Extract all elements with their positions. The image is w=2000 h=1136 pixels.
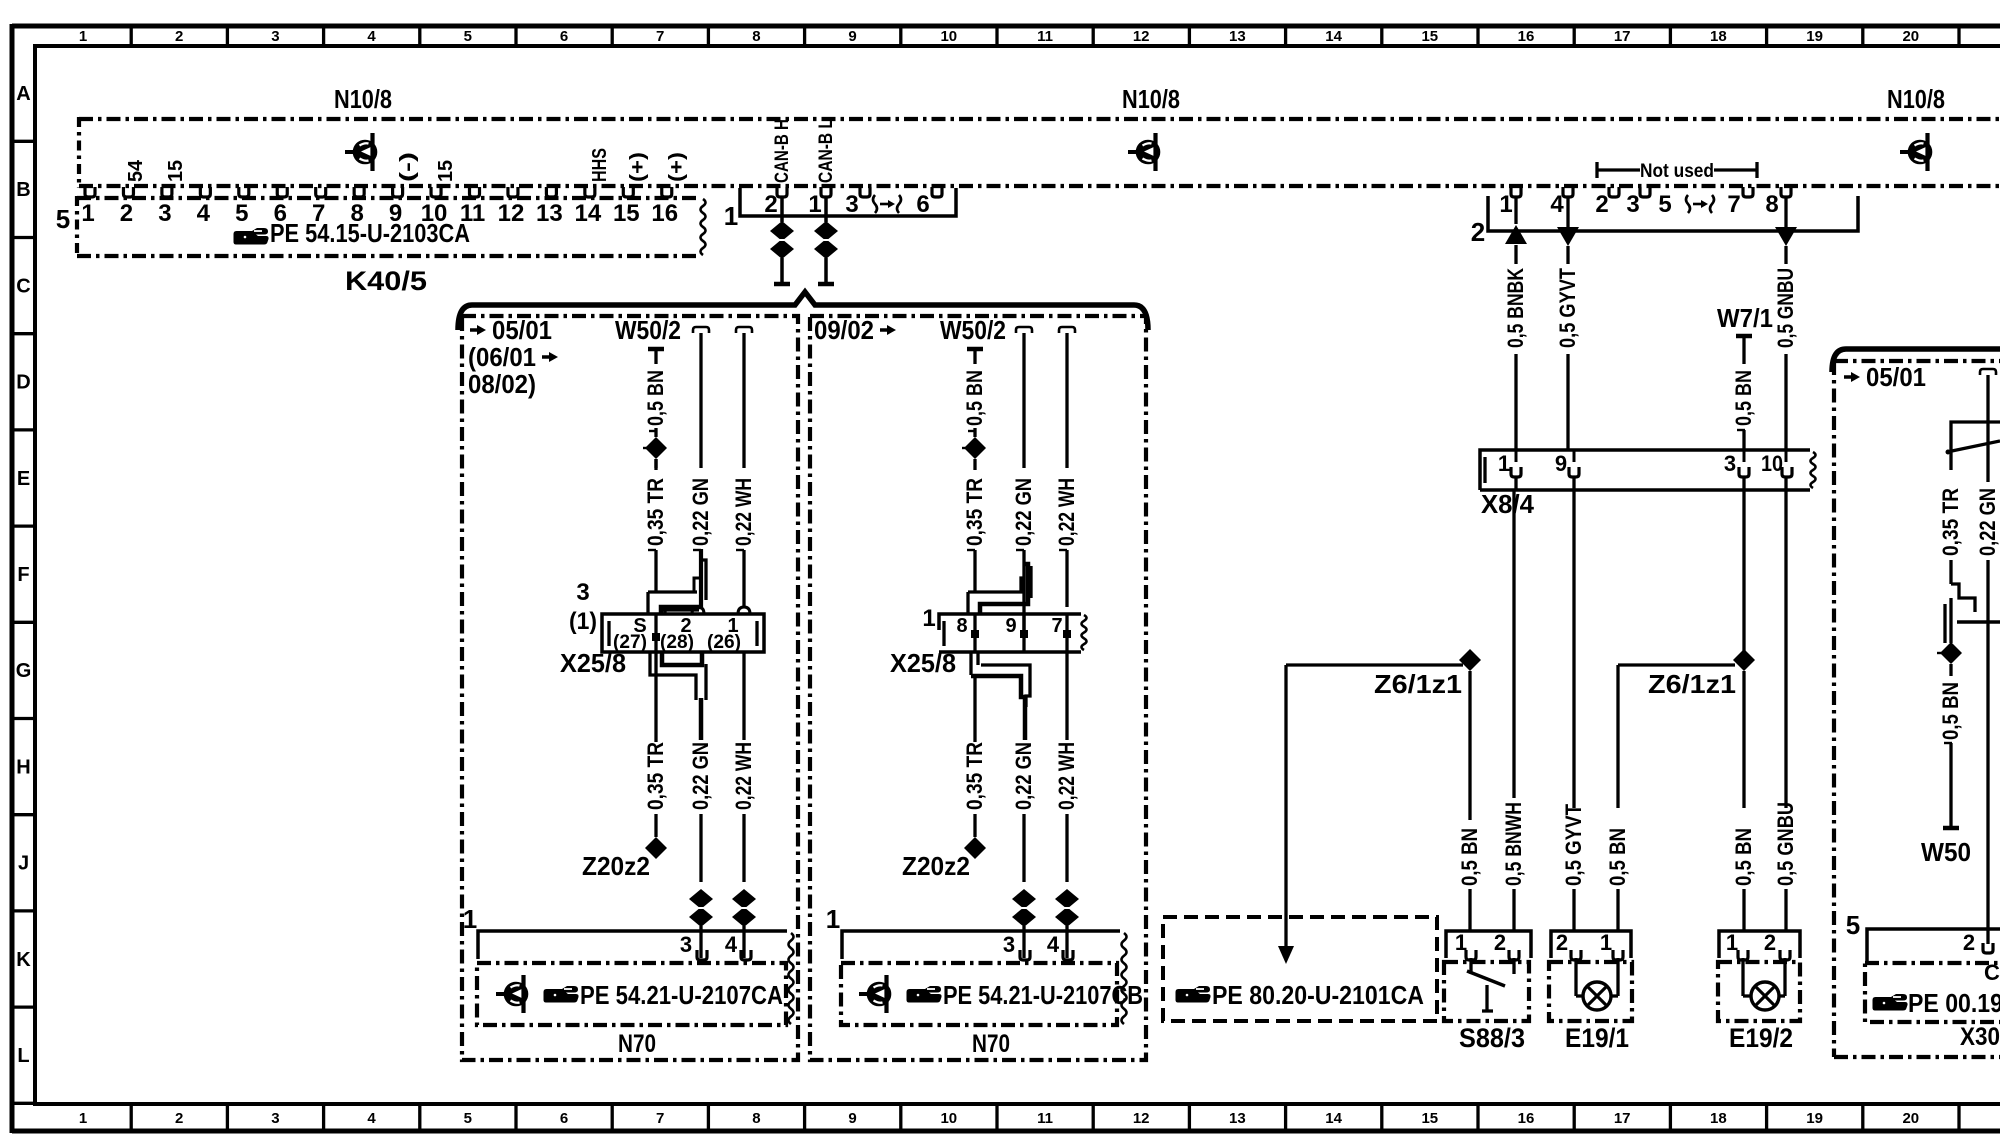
svg-text:17: 17	[1614, 1110, 1631, 1127]
svg-text:0,5 GYVT: 0,5 GYVT	[1555, 268, 1580, 348]
svg-text:PE 54.21-U-2107CB: PE 54.21-U-2107CB	[943, 980, 1143, 1010]
svg-text:PE 54.15-U-2103CA: PE 54.15-U-2103CA	[270, 218, 470, 248]
connector X25/8 left	[602, 614, 764, 652]
svg-text:16: 16	[1518, 1110, 1535, 1127]
svg-text:3: 3	[271, 1110, 279, 1127]
svg-text:3: 3	[576, 579, 589, 606]
ground W50	[1943, 826, 1959, 831]
svg-text:E19/2: E19/2	[1729, 1023, 1793, 1053]
svg-text:0,5 BN: 0,5 BN	[1605, 828, 1630, 886]
svg-text:HHS: HHS	[589, 148, 611, 182]
connector X8/4	[1480, 450, 1810, 490]
svg-text:1: 1	[79, 1110, 87, 1127]
svg-text:2: 2	[120, 200, 133, 227]
svg-text:C: C	[1984, 960, 2000, 985]
svg-text:10: 10	[940, 28, 957, 45]
svg-text:0,5 BN: 0,5 BN	[1938, 682, 1963, 740]
svg-text:2: 2	[175, 28, 183, 45]
switch contacts	[1469, 958, 1472, 974]
svg-text:0,5 BNWH: 0,5 BNWH	[1501, 802, 1526, 886]
svg-text:11: 11	[1037, 28, 1053, 45]
svg-text:2: 2	[175, 1110, 183, 1127]
svg-text:10: 10	[1761, 451, 1783, 476]
svg-text:S88/3: S88/3	[1459, 1023, 1525, 1053]
K40/5 pins 1-16	[85, 187, 95, 197]
svg-text:8: 8	[752, 1110, 760, 1127]
CAN wires with connectors	[780, 196, 784, 222]
lamp E19/2	[1719, 931, 1800, 958]
svg-text:14: 14	[1325, 1110, 1342, 1127]
svg-text:0,35 TR: 0,35 TR	[962, 742, 987, 810]
svg-text:C: C	[16, 275, 30, 297]
internal connection icon 3	[1909, 141, 1931, 163]
connector 1 (CAN)	[740, 188, 956, 216]
fuse/relay box K40/5	[77, 196, 700, 200]
svg-text:7: 7	[656, 1110, 664, 1127]
terminal GN wire right	[1016, 327, 1032, 333]
wire 0,5 GNBU upper	[1784, 246, 1787, 264]
connector X30 bottom right	[1867, 929, 2000, 963]
svg-text:2: 2	[1595, 191, 1608, 218]
svg-text:0,22 GN: 0,22 GN	[1975, 488, 2000, 556]
svg-text:12: 12	[1133, 1110, 1150, 1127]
svg-text:5: 5	[235, 200, 248, 227]
far right TR wire elbow	[1951, 422, 2000, 470]
junction sleeve Z6/1z1 left	[1459, 649, 1481, 671]
svg-text:(26): (26)	[707, 632, 741, 653]
svg-text:4: 4	[1047, 932, 1060, 957]
svg-text:15: 15	[1421, 1110, 1438, 1127]
svg-text:6: 6	[560, 28, 568, 45]
svg-text:0,22 GN: 0,22 GN	[1011, 742, 1036, 810]
svg-text:15: 15	[1421, 28, 1438, 45]
svg-text:0,5 BNBK: 0,5 BNBK	[1503, 268, 1528, 348]
svg-text:Z6/1z1: Z6/1z1	[1648, 669, 1736, 699]
internal connection icon 2	[1137, 141, 1159, 163]
svg-text:(1): (1)	[569, 608, 597, 635]
wire 0,22 WH left lower	[742, 652, 745, 740]
connector X25/8 right	[939, 614, 1081, 630]
svg-text:54: 54	[125, 159, 147, 182]
svg-text:9: 9	[1005, 615, 1016, 637]
svg-text:05/01: 05/01	[1866, 362, 1926, 392]
svg-text:1: 1	[724, 201, 738, 231]
svg-text:2: 2	[1963, 930, 1975, 955]
svg-text:12: 12	[1133, 28, 1150, 45]
PE reference 54.21CA	[505, 983, 527, 1005]
svg-text:CAN-B H: CAN-B H	[772, 119, 793, 183]
svg-text:N10/8: N10/8	[1122, 84, 1180, 114]
svg-text:1: 1	[826, 904, 840, 934]
svg-text:0,22 GN: 0,22 GN	[688, 478, 713, 546]
svg-text:19: 19	[1806, 28, 1823, 45]
PE reference 54.21CB	[868, 983, 890, 1005]
svg-text:W50/2: W50/2	[940, 315, 1006, 345]
crossover staircase below X25/8 right	[971, 652, 978, 675]
svg-text:H: H	[16, 756, 30, 778]
svg-text:5: 5	[464, 28, 472, 45]
svg-text:(28): (28)	[660, 632, 694, 653]
svg-text:13: 13	[1229, 1110, 1246, 1127]
svg-text:16: 16	[651, 200, 678, 227]
svg-text:20: 20	[1902, 28, 1919, 45]
svg-text:13: 13	[536, 200, 563, 227]
crossover staircase above X25/8 right	[968, 578, 1024, 614]
svg-text:X30: X30	[1960, 1023, 2000, 1051]
wire to PE 80.20 box with arrow	[1284, 665, 1287, 948]
sleeve connector far right	[1940, 642, 1962, 664]
svg-text:05/01: 05/01	[492, 315, 552, 345]
svg-text:1: 1	[81, 200, 94, 227]
svg-text:13: 13	[1229, 28, 1246, 45]
svg-text:0,22 WH: 0,22 WH	[1054, 742, 1079, 810]
svg-text:2: 2	[1556, 930, 1568, 955]
svg-text:8: 8	[1765, 191, 1778, 218]
svg-text:15: 15	[165, 160, 187, 182]
svg-text:9: 9	[1555, 451, 1567, 476]
lamp symbol E19/1	[1574, 958, 1577, 996]
svg-text:D: D	[16, 372, 30, 394]
wire 0,5 GYVT upper	[1566, 246, 1569, 264]
svg-text:3: 3	[1626, 191, 1639, 218]
svg-text:5: 5	[1846, 910, 1860, 940]
svg-text:X25/8: X25/8	[890, 648, 956, 678]
svg-text:5: 5	[56, 204, 70, 234]
svg-text:Z6/1z1: Z6/1z1	[1374, 669, 1462, 699]
control module N70 right	[842, 931, 1120, 959]
sleeve Z20z2 right	[964, 837, 986, 859]
PE reference 54.15	[234, 228, 269, 245]
svg-text:14: 14	[574, 200, 601, 227]
svg-text:3: 3	[1003, 932, 1015, 957]
svg-text:PE 00.19: PE 00.19	[1908, 988, 2000, 1018]
svg-text:12: 12	[498, 200, 525, 227]
svg-text:(+): (+)	[666, 152, 688, 182]
svg-text:0,5 BN: 0,5 BN	[1731, 828, 1756, 886]
svg-text:0,35 TR: 0,35 TR	[643, 742, 668, 810]
svg-text:6: 6	[560, 1110, 568, 1127]
svg-text:X25/8: X25/8	[560, 648, 626, 678]
internal connection icon 1	[354, 141, 376, 163]
svg-text:7: 7	[656, 28, 664, 45]
svg-text:1: 1	[79, 28, 87, 45]
Not used bracket	[1597, 162, 1640, 178]
svg-text:8: 8	[752, 28, 760, 45]
svg-text:4: 4	[367, 28, 376, 45]
svg-text:PE 54.21-U-2107CA: PE 54.21-U-2107CA	[580, 980, 783, 1010]
svg-text:16: 16	[1518, 28, 1535, 45]
svg-text:0,5 GNBU: 0,5 GNBU	[1773, 268, 1798, 348]
svg-text:3: 3	[680, 932, 692, 957]
svg-text:Not used: Not used	[1640, 161, 1714, 182]
wire 0,35 TR left upper	[654, 459, 657, 468]
inline connectors above N70 left	[689, 889, 713, 909]
svg-text:F: F	[17, 564, 29, 586]
terminal WH wire right	[1059, 327, 1075, 333]
svg-text:0,5 BN: 0,5 BN	[1457, 828, 1482, 886]
svg-text:0,35 TR: 0,35 TR	[1938, 488, 1963, 556]
crossover staircase above X25/8 left	[648, 560, 706, 614]
border frame	[12, 24, 2000, 29]
svg-text:J: J	[18, 853, 29, 875]
svg-text:A: A	[16, 83, 30, 105]
svg-text:(06/01: (06/01	[468, 342, 536, 372]
svg-text:1: 1	[922, 605, 935, 632]
svg-text:0,35 TR: 0,35 TR	[962, 478, 987, 546]
svg-text:0,5 BN: 0,5 BN	[1731, 370, 1756, 426]
svg-text:G: G	[16, 660, 32, 682]
svg-text:W7/1: W7/1	[1717, 303, 1773, 333]
crossover staircase below X25/8 left	[650, 652, 696, 700]
date range far right	[1844, 375, 1853, 379]
wire 0,5 BNWH	[1512, 490, 1515, 798]
terminal WH wire left	[736, 327, 752, 333]
svg-text:0,5 BN: 0,5 BN	[962, 370, 987, 426]
variant box 09/02 (right)	[810, 316, 1146, 1060]
switch S88/3	[1446, 931, 1531, 958]
junction sleeve Z6/1z1 right	[1733, 649, 1755, 671]
svg-text:N70: N70	[618, 1030, 656, 1058]
svg-text:14: 14	[1325, 28, 1342, 45]
sleeve Z20z2 left	[654, 814, 657, 837]
svg-text:17: 17	[1614, 28, 1631, 45]
svg-text:B: B	[16, 179, 30, 201]
svg-text:(+): (+)	[627, 152, 649, 182]
svg-text:0,35 TR: 0,35 TR	[643, 478, 668, 546]
PE reference 80.20 box	[1163, 917, 1437, 1021]
lamp E19/1	[1551, 931, 1631, 958]
svg-text:09/02: 09/02	[814, 315, 874, 345]
svg-text:1: 1	[463, 904, 477, 934]
svg-text:15: 15	[435, 160, 457, 182]
svg-text:11: 11	[1037, 1110, 1053, 1127]
svg-text:2: 2	[1471, 217, 1485, 247]
svg-text:0,5 BN: 0,5 BN	[643, 370, 668, 426]
signal arrows	[1514, 196, 1517, 224]
svg-text:2: 2	[1494, 930, 1506, 955]
svg-text:Z20z2: Z20z2	[582, 851, 650, 881]
svg-text:7: 7	[1051, 615, 1062, 637]
svg-text:0,22 GN: 0,22 GN	[688, 742, 713, 810]
wire 0,22 WH right lower	[1065, 652, 1068, 740]
svg-text:1: 1	[1726, 930, 1738, 955]
svg-text:0,22 WH: 0,22 WH	[731, 742, 756, 810]
svg-text:CAN-B L: CAN-B L	[816, 119, 837, 183]
svg-text:08/02): 08/02)	[468, 369, 536, 399]
svg-text:E: E	[17, 468, 30, 490]
svg-text:4: 4	[367, 1110, 376, 1127]
svg-text:3: 3	[271, 28, 279, 45]
svg-text:7: 7	[1727, 191, 1740, 218]
variant box 05/01 (left)	[462, 316, 798, 1060]
svg-text:3: 3	[845, 191, 858, 218]
svg-text:K: K	[16, 949, 31, 971]
svg-text:0,22 WH: 0,22 WH	[1054, 478, 1079, 546]
svg-text:E19/1: E19/1	[1565, 1023, 1629, 1053]
wire 0,5 BNBK	[1514, 245, 1517, 264]
svg-text:4: 4	[197, 200, 211, 227]
twisted pair chevron bracket	[458, 292, 1148, 330]
svg-text:8: 8	[956, 615, 967, 637]
svg-text:9: 9	[848, 1110, 856, 1127]
far right variant box 05/01	[1832, 349, 2000, 372]
inline connectors above N70 right	[1012, 889, 1036, 909]
svg-text:6: 6	[916, 191, 929, 218]
svg-text:1: 1	[1600, 930, 1612, 955]
pin contacts X25/8 right	[973, 614, 976, 652]
sleeve connector on BN wire left	[645, 437, 667, 459]
wire X8/4 pin3 to E19/2 with Z6/1z1	[1742, 490, 1745, 652]
X8/4 pin wires through	[1515, 450, 1518, 462]
svg-text:3: 3	[158, 200, 171, 227]
svg-text:(-): (-)	[397, 152, 419, 182]
svg-text:9: 9	[848, 28, 856, 45]
pin contacts X25/8 left	[654, 614, 657, 652]
svg-text:19: 19	[1806, 1110, 1823, 1127]
wire 0,5 GYVT lower	[1572, 490, 1575, 808]
terminal GN wire left	[693, 327, 709, 333]
control module N70 left	[478, 931, 787, 959]
svg-text:18: 18	[1710, 1110, 1727, 1127]
svg-text:4: 4	[725, 932, 738, 957]
svg-text:15: 15	[613, 200, 640, 227]
svg-text:1: 1	[1498, 451, 1510, 476]
control unit N10/8 band	[79, 117, 2000, 121]
svg-text:N10/8: N10/8	[334, 84, 392, 114]
svg-text:X8/4: X8/4	[1481, 489, 1535, 519]
svg-text:5: 5	[464, 1110, 472, 1127]
svg-text:10: 10	[940, 1110, 957, 1127]
connector 2	[1488, 196, 1858, 231]
svg-text:W50: W50	[1921, 837, 1971, 867]
svg-text:0,5 GNBU: 0,5 GNBU	[1773, 802, 1798, 886]
staircase far right	[1951, 584, 1975, 612]
crossing wire sloped	[1947, 441, 2000, 452]
branch to E19/1 pin1	[1618, 663, 1735, 666]
wire 0,5 GNBU lower	[1784, 490, 1787, 808]
svg-text:K40/5: K40/5	[345, 266, 427, 296]
svg-text:PE 80.20-U-2101CA: PE 80.20-U-2101CA	[1212, 980, 1424, 1010]
svg-text:L: L	[17, 1045, 29, 1067]
sleeve connector on BN wire right	[964, 437, 986, 459]
svg-text:Z20z2: Z20z2	[902, 851, 970, 881]
svg-text:0,22 WH: 0,22 WH	[731, 478, 756, 546]
svg-text:0,22 GN: 0,22 GN	[1011, 478, 1036, 546]
svg-text:3: 3	[1724, 451, 1736, 476]
svg-text:N70: N70	[972, 1030, 1010, 1058]
svg-text:20: 20	[1902, 1110, 1919, 1127]
date range left	[470, 328, 479, 332]
svg-text:N10/8: N10/8	[1887, 84, 1945, 114]
svg-text:2: 2	[1764, 930, 1776, 955]
wire 0,22 GN far right	[1980, 369, 1996, 375]
svg-text:18: 18	[1710, 28, 1727, 45]
svg-text:W50/2: W50/2	[615, 315, 681, 345]
lamp symbol E19/2	[1741, 958, 1744, 996]
svg-text:5: 5	[1658, 191, 1671, 218]
svg-text:0,5 GYVT: 0,5 GYVT	[1561, 804, 1586, 886]
